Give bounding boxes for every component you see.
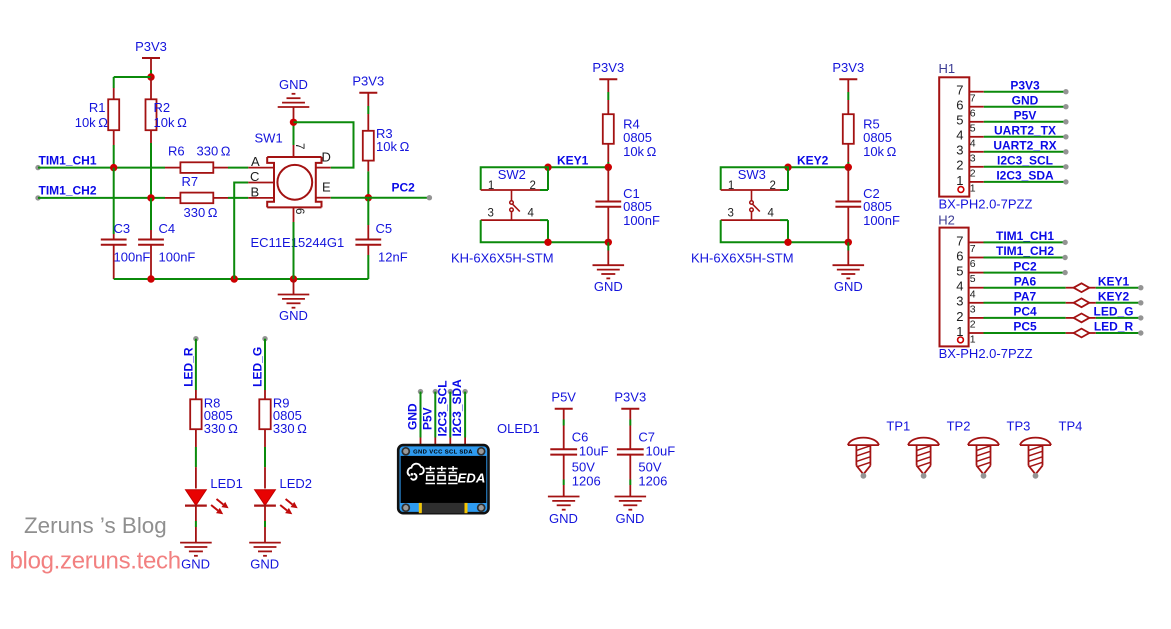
- resistor R1: [75, 77, 119, 168]
- svg-text:7: 7: [293, 143, 305, 149]
- wire: [114, 76, 151, 78]
- svg-text:P3V3: P3V3: [1010, 78, 1040, 92]
- svg-text:6: 6: [970, 107, 976, 119]
- svg-text:C: C: [250, 169, 259, 184]
- power flag P5V (C6): [551, 390, 576, 426]
- H2 pin 5 net PC2: [956, 259, 1068, 285]
- svg-text:5: 5: [956, 264, 963, 279]
- svg-text:P3V3: P3V3: [135, 39, 167, 54]
- svg-text:PA7: PA7: [1014, 290, 1037, 304]
- resistor R4: [603, 100, 657, 167]
- svg-text:GND: GND: [279, 77, 308, 92]
- svg-text:EC11E15244G1: EC11E15244G1: [251, 235, 345, 250]
- svg-text:P3V3: P3V3: [352, 74, 384, 89]
- connector H2: [938, 212, 968, 346]
- svg-text:KEY1: KEY1: [557, 153, 589, 167]
- svg-text:6: 6: [970, 258, 976, 270]
- svg-text:2: 2: [970, 167, 976, 179]
- svg-text:1: 1: [728, 180, 734, 192]
- svg-text:KH-6X6X5H-STM: KH-6X6X5H-STM: [691, 251, 794, 266]
- svg-text:100nF: 100nF: [623, 213, 660, 228]
- svg-text:I2C3_SCL: I2C3_SCL: [997, 154, 1053, 168]
- ground GND (below C7): [615, 497, 647, 526]
- power flag P3V3 (R3): [352, 74, 384, 115]
- svg-text:PC2: PC2: [392, 181, 416, 195]
- junction (P3V3/R2): [147, 73, 154, 80]
- svg-text:I2C3_SCL: I2C3_SCL: [435, 380, 449, 436]
- wire ground rail: [114, 278, 369, 280]
- svg-text:BX-PH2.0-7PZZ: BX-PH2.0-7PZZ: [939, 197, 1033, 212]
- H1 pin 4 net UART2_TX: [956, 124, 1068, 150]
- junction (SW3/KEY2): [784, 164, 791, 171]
- svg-text:KEY2: KEY2: [797, 153, 829, 167]
- svg-text:SW2: SW2: [498, 167, 526, 182]
- wire encoder pin6 to rail: [293, 222, 295, 279]
- resistor R8: [190, 390, 238, 489]
- junction (encoder pin6/rail): [290, 275, 297, 282]
- junction (SW3 bottom): [784, 239, 791, 246]
- junction (R2/TIM1_CH2): [147, 194, 154, 201]
- junction (R3/PC2): [365, 194, 372, 201]
- svg-text:100nF: 100nF: [159, 250, 196, 265]
- capacitor C5: [355, 198, 407, 279]
- svg-text:PC2: PC2: [1013, 259, 1037, 273]
- svg-text:SW3: SW3: [738, 167, 766, 182]
- OLED module OLED1: [398, 445, 488, 513]
- svg-text:LED_G: LED_G: [251, 347, 265, 387]
- net port P5V (OLED pin): [420, 389, 438, 430]
- ground GND (below C6): [548, 497, 580, 526]
- svg-text:I2C3_SDA: I2C3_SDA: [996, 169, 1054, 183]
- test point TP1: [848, 418, 910, 478]
- H1 pin 1 net I2C3_SDA: [956, 169, 1068, 195]
- svg-text:TIM1_CH2: TIM1_CH2: [39, 184, 97, 198]
- resistor R7: [165, 174, 248, 220]
- svg-text:KEY2: KEY2: [1098, 290, 1130, 304]
- net port LED_G: [251, 336, 268, 387]
- net port LED_R: [182, 336, 199, 387]
- svg-text:7: 7: [956, 83, 963, 98]
- wire TIM1_CH2: [38, 197, 165, 199]
- svg-text:7: 7: [970, 243, 976, 255]
- H1 pin 6 net GND: [956, 93, 1068, 119]
- svg-text:EDA: EDA: [458, 471, 486, 486]
- svg-text:5: 5: [970, 122, 976, 134]
- svg-text:1: 1: [970, 183, 976, 195]
- H2 pin 3 net PA7: [956, 290, 1143, 316]
- svg-text:C7: C7: [638, 430, 655, 445]
- power flag P3V3 (top left): [135, 39, 167, 77]
- resistor R9: [259, 390, 307, 489]
- svg-text:50V: 50V: [638, 459, 661, 474]
- svg-text:TP3: TP3: [1007, 418, 1031, 433]
- svg-text:0805: 0805: [863, 199, 892, 214]
- H1 pin1 indicator: [958, 187, 964, 193]
- svg-text:R7: R7: [182, 174, 199, 189]
- connector H1: [939, 61, 970, 197]
- svg-text:0805: 0805: [863, 130, 892, 145]
- junction (gnd/pinD loop): [290, 119, 297, 126]
- svg-text:Zeruns ’s Blog: Zeruns ’s Blog: [24, 513, 167, 538]
- svg-text:BX-PH2.0-7PZZ: BX-PH2.0-7PZZ: [939, 346, 1033, 361]
- power flag P3V3 (R4): [592, 60, 624, 100]
- test point TP4: [1020, 418, 1082, 478]
- svg-text:P3V3: P3V3: [832, 60, 864, 75]
- ground GND (below C2): [833, 242, 865, 293]
- svg-text:P5V: P5V: [551, 390, 576, 405]
- svg-text:LED2: LED2: [280, 476, 313, 491]
- net port I2C3_SCL (OLED pin): [435, 380, 453, 436]
- svg-text:4: 4: [970, 288, 976, 300]
- net port TIM1_CH1: [35, 153, 97, 170]
- svg-text:3: 3: [970, 303, 976, 315]
- svg-text:2: 2: [956, 158, 963, 173]
- svg-text:GND: GND: [279, 308, 308, 323]
- svg-text:B: B: [251, 184, 260, 199]
- svg-text:TIM1_CH2: TIM1_CH2: [996, 244, 1054, 258]
- H2 pin 2 net PC4: [956, 305, 1143, 331]
- switch SW3: [721, 167, 788, 242]
- svg-text:4: 4: [768, 208, 775, 220]
- svg-text:A: A: [251, 154, 260, 169]
- svg-text:GND: GND: [181, 556, 210, 571]
- svg-text:10uF: 10uF: [579, 444, 609, 459]
- svg-text:3: 3: [488, 208, 494, 220]
- svg-text:3: 3: [956, 294, 963, 309]
- svg-text:KH-6X6X5H-STM: KH-6X6X5H-STM: [451, 251, 554, 266]
- svg-text:1: 1: [956, 173, 963, 188]
- svg-text:UART2_TX: UART2_TX: [994, 124, 1056, 138]
- capacitor C4: [138, 198, 195, 279]
- svg-text:0805: 0805: [623, 130, 652, 145]
- junction (C1 bottom): [605, 239, 612, 246]
- H1 pin 7 net P3V3: [956, 78, 1068, 104]
- H1 pin 2 net I2C3_SCL: [956, 154, 1068, 180]
- capacitor C7: [617, 426, 675, 497]
- junction (SW2/KEY1): [544, 164, 551, 171]
- H1 pin 5 net P5V: [956, 109, 1068, 135]
- wire OLED I2C3_SCL: [449, 392, 451, 446]
- svg-text:PA6: PA6: [1014, 274, 1037, 288]
- H2 pin 6 net TIM1_CH2: [956, 244, 1068, 270]
- svg-text:LED_R: LED_R: [1094, 320, 1134, 334]
- svg-text:7: 7: [956, 233, 963, 248]
- svg-text:C5: C5: [376, 221, 393, 236]
- svg-text:12nF: 12nF: [378, 250, 408, 265]
- svg-text:PC5: PC5: [1013, 320, 1037, 334]
- svg-text:10k Ω: 10k Ω: [376, 139, 410, 154]
- svg-text:I2C3_SDA: I2C3_SDA: [450, 379, 464, 437]
- svg-text:P3V3: P3V3: [614, 390, 646, 405]
- ground GND (above SW1): [278, 77, 310, 122]
- junction (R4/C1): [605, 164, 612, 171]
- wire encoder pin7 to gnd: [293, 122, 295, 145]
- ground GND (below C1): [593, 242, 625, 293]
- svg-text:4: 4: [956, 128, 963, 143]
- svg-text:330 Ω: 330 Ω: [273, 421, 307, 436]
- ground GND (below LED2): [249, 506, 281, 572]
- svg-text:R1: R1: [89, 100, 106, 115]
- wire OLED GND: [420, 392, 422, 446]
- svg-text:LED_R: LED_R: [182, 347, 196, 387]
- svg-text:P5V: P5V: [1014, 109, 1037, 123]
- svg-text:7: 7: [970, 92, 976, 104]
- wire SW3 bottom: [788, 241, 848, 243]
- LED LED2: [254, 476, 312, 514]
- svg-text:6: 6: [956, 248, 963, 263]
- svg-text:330 Ω: 330 Ω: [204, 421, 238, 436]
- resistor R2: [146, 77, 188, 198]
- svg-text:PC4: PC4: [1013, 305, 1037, 319]
- svg-text:10k Ω: 10k Ω: [75, 115, 109, 130]
- svg-text:100nF: 100nF: [863, 213, 900, 228]
- wire KEY2: [788, 166, 848, 168]
- svg-text:2: 2: [530, 180, 536, 192]
- svg-text:5: 5: [956, 113, 963, 128]
- svg-text:1206: 1206: [638, 474, 667, 489]
- svg-text:KEY1: KEY1: [1098, 274, 1130, 288]
- svg-text:50V: 50V: [572, 459, 595, 474]
- svg-text:P5V: P5V: [420, 407, 434, 430]
- H2 pin 1 net PC5: [956, 320, 1143, 346]
- svg-text:R6: R6: [168, 144, 185, 159]
- svg-text:2: 2: [770, 180, 776, 192]
- wire OLED I2C3_SDA: [464, 392, 466, 446]
- svg-text:P3V3: P3V3: [592, 60, 624, 75]
- wire KEY1: [548, 166, 608, 168]
- svg-text:4: 4: [528, 208, 535, 220]
- svg-text:0805: 0805: [623, 199, 652, 214]
- svg-text:TP4: TP4: [1059, 418, 1083, 433]
- svg-text:330 Ω: 330 Ω: [197, 144, 231, 159]
- wire gnd to encoder pin D: [294, 122, 354, 167]
- svg-text:C3: C3: [114, 221, 131, 236]
- svg-text:SW1: SW1: [255, 131, 283, 146]
- net port TIM1_CH2: [35, 184, 97, 201]
- H1 pin 3 net UART2_RX: [956, 139, 1068, 165]
- capacitor C2: [835, 167, 900, 242]
- svg-text:GND: GND: [250, 556, 279, 571]
- svg-text:C4: C4: [159, 221, 176, 236]
- power flag P3V3 (R5): [832, 60, 864, 100]
- ground GND (below SW1): [278, 279, 310, 323]
- svg-text:3: 3: [970, 152, 976, 164]
- resistor R3: [363, 114, 410, 198]
- junction (R1/TIM1_CH1): [110, 164, 117, 171]
- H2 pin 7 net TIM1_CH1: [956, 229, 1068, 255]
- svg-text:GND: GND: [549, 511, 578, 526]
- svg-text:1206: 1206: [572, 474, 601, 489]
- net port I2C3_SDA (OLED pin): [450, 379, 468, 437]
- svg-text:10k Ω: 10k Ω: [623, 144, 657, 159]
- svg-text:GND: GND: [616, 511, 645, 526]
- switch SW2: [481, 167, 548, 242]
- svg-text:GND: GND: [834, 279, 863, 294]
- svg-text:3: 3: [728, 208, 734, 220]
- svg-text:TIM1_CH1: TIM1_CH1: [39, 153, 97, 167]
- capacitor C3: [101, 168, 151, 279]
- svg-text:5: 5: [970, 273, 976, 285]
- wire LED_R: [195, 339, 197, 390]
- svg-text:OLED1: OLED1: [497, 421, 540, 436]
- svg-text:2: 2: [956, 309, 963, 324]
- junction (C2 bottom): [845, 239, 852, 246]
- svg-text:LED_G: LED_G: [1093, 305, 1133, 319]
- svg-text:10k Ω: 10k Ω: [154, 115, 188, 130]
- net port GND (OLED pin): [406, 389, 424, 430]
- svg-text:TP2: TP2: [947, 418, 971, 433]
- svg-text:GND: GND: [406, 403, 420, 430]
- svg-text:TIM1_CH1: TIM1_CH1: [996, 229, 1054, 243]
- svg-text:TP1: TP1: [886, 418, 910, 433]
- svg-text:10k Ω: 10k Ω: [863, 144, 897, 159]
- svg-text:100nF: 100nF: [114, 250, 151, 265]
- test point TP2: [908, 418, 970, 478]
- svg-text:D: D: [322, 149, 331, 164]
- svg-text:E: E: [322, 180, 331, 195]
- wire PC2: [331, 197, 430, 199]
- junction (encoder C pin/rail): [231, 275, 238, 282]
- wire OLED P5V: [434, 392, 436, 446]
- svg-text:1: 1: [488, 180, 494, 192]
- svg-text:4: 4: [956, 279, 963, 294]
- resistor R5: [843, 100, 897, 167]
- svg-text:UART2_RX: UART2_RX: [993, 139, 1056, 153]
- test point TP3: [968, 418, 1030, 478]
- H2 pin 4 net PA6: [956, 274, 1143, 300]
- svg-text:330 Ω: 330 Ω: [184, 205, 218, 220]
- junction (C4/rail): [147, 275, 154, 282]
- svg-text:R2: R2: [154, 100, 171, 115]
- wire encoder pin C to ground: [234, 183, 248, 280]
- svg-text:10uF: 10uF: [646, 444, 676, 459]
- svg-text:H1: H1: [939, 61, 956, 76]
- svg-text:C6: C6: [572, 430, 589, 445]
- junction (R5/C2): [845, 164, 852, 171]
- svg-text:GND: GND: [1012, 93, 1039, 107]
- resistor R6: [165, 144, 248, 173]
- ground GND (below LED1): [180, 506, 212, 572]
- junction (SW2 bottom): [544, 239, 551, 246]
- power flag P3V3 (C7): [614, 390, 646, 426]
- LED LED1: [185, 476, 243, 514]
- svg-text:H2: H2: [938, 212, 955, 227]
- H2 pin1 indicator: [958, 337, 964, 343]
- capacitor C6: [550, 426, 608, 497]
- net port PC2: [392, 181, 433, 201]
- svg-text:GND VCC SCL SDA: GND VCC SCL SDA: [413, 449, 473, 455]
- svg-text:blog.zeruns.tech: blog.zeruns.tech: [10, 547, 181, 574]
- svg-text:1: 1: [970, 334, 976, 346]
- wire LED_G: [264, 339, 266, 390]
- svg-text:LED1: LED1: [210, 476, 243, 491]
- wire SW2 bottom: [548, 241, 608, 243]
- svg-text:6: 6: [956, 98, 963, 113]
- svg-text:3: 3: [956, 143, 963, 158]
- wire TIM1_CH1: [38, 167, 165, 169]
- capacitor C1: [595, 167, 660, 242]
- svg-text:GND: GND: [594, 279, 623, 294]
- rotary encoder SW1: [248, 131, 344, 250]
- svg-text:6: 6: [293, 208, 305, 214]
- svg-text:2: 2: [970, 319, 976, 331]
- svg-text:4: 4: [970, 137, 976, 149]
